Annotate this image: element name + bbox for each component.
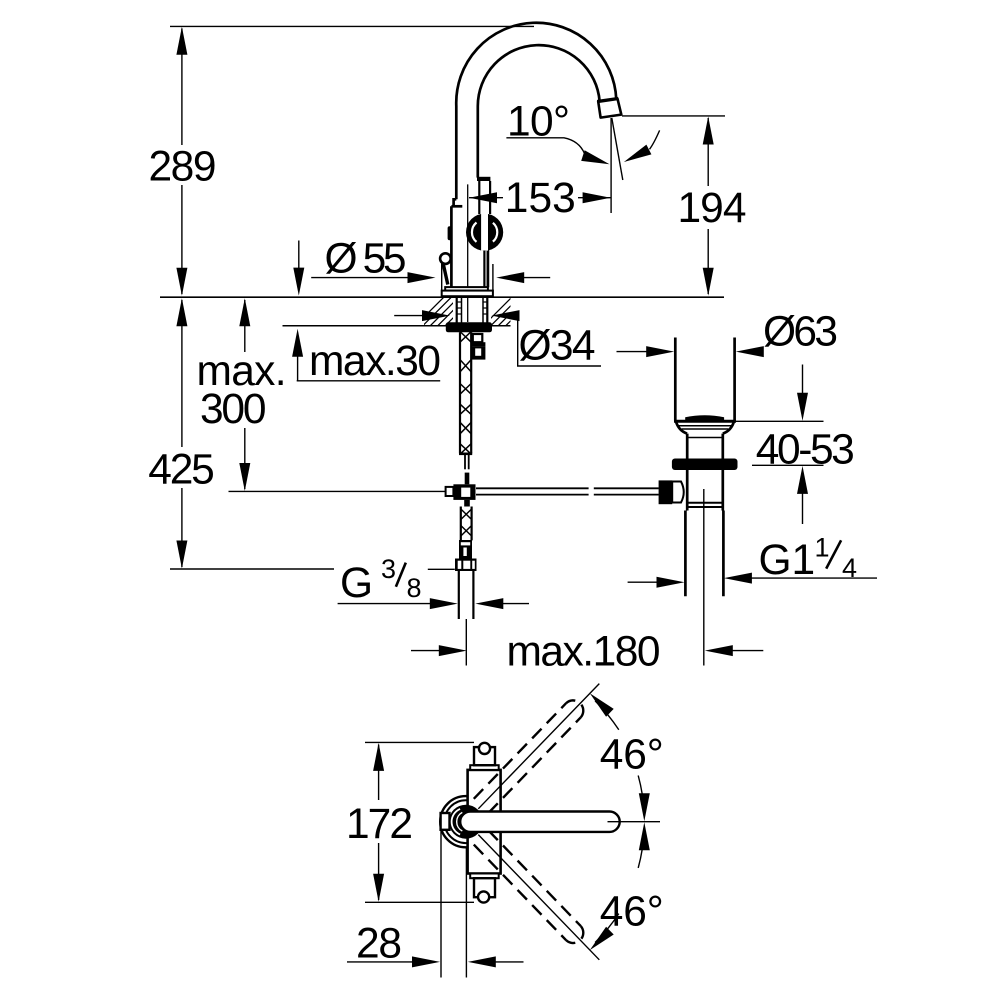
dashed swivel spout lower 46 deg (474, 830, 583, 943)
dimension 172 extension lines (365, 741, 474, 743)
dimension 28 arrows (347, 956, 524, 967)
extension line right of base (492, 264, 494, 293)
drain top cylinder diameter 63 (675, 338, 734, 421)
svg-text:max.30: max.30 (309, 338, 441, 385)
mounting nut (446, 322, 492, 332)
dimension max.180 left arrow (411, 645, 467, 656)
supply pipe centerline extension (465, 619, 467, 666)
spout axis vertical extension line (610, 118, 612, 213)
supply pipe G 3/8 (459, 571, 474, 619)
faucet spout outer arc and left tube edge (456, 23, 616, 200)
right arc of 10 degree swing (650, 130, 660, 149)
drain pivot block (659, 480, 673, 504)
extension line from center down (465, 848, 467, 978)
svg-text:300: 300 (200, 386, 267, 433)
pop-up horizontal rod to drain (476, 488, 659, 494)
dimension max.30 bottom arrow (292, 329, 303, 381)
dimension 194 extension line (622, 115, 725, 117)
svg-text:G: G (340, 560, 373, 607)
pop-up rod horizontal left single line (229, 490, 446, 492)
counter hatch left block (415, 297, 474, 326)
drain body upper (687, 434, 723, 459)
leader line of diameter 34 (514, 316, 601, 366)
svg-text:194: 194 (678, 185, 747, 232)
svg-text:Ø34: Ø34 (519, 323, 596, 370)
extension line left of base (441, 263, 443, 293)
spout aerator nozzle (597, 99, 621, 118)
svg-text:46°: 46° (600, 888, 664, 935)
top view body bar (468, 770, 501, 874)
dimension diameter 34 arrows (394, 310, 519, 321)
arrowhead of right arc (624, 145, 652, 162)
lever bar through knob (481, 212, 488, 250)
dimension diameter 63 arrows (617, 346, 764, 357)
svg-text:G1: G1 (759, 537, 816, 584)
lever channel sides (478, 181, 480, 214)
handle knob black disc (466, 214, 503, 251)
pop-up rod joint collar (446, 487, 454, 496)
top view shoulder band bottom (470, 874, 499, 879)
dimension diameter 55 line right (496, 272, 550, 283)
extension line bottom of 425 (170, 568, 334, 570)
G 3/8 connection nut (455, 559, 477, 572)
handle knob inner white arcs (472, 223, 477, 242)
svg-text:Ø63: Ø63 (763, 309, 838, 356)
base flange step 2 (442, 291, 493, 297)
braided supply hose lower (461, 507, 472, 541)
top view second circle (444, 800, 487, 843)
faucet body centerline (467, 184, 469, 322)
svg-text:425: 425 (148, 447, 215, 494)
top view black ring (449, 805, 483, 839)
dimension max.180 right arrow (705, 645, 764, 656)
thin pull rod below hose (465, 455, 469, 469)
body right edge (487, 249, 490, 287)
drain flange bottom line (674, 420, 736, 423)
dimension diameter 55 line left (311, 272, 435, 283)
svg-text:153: 153 (505, 175, 576, 222)
hose side fitting nipple (472, 334, 486, 360)
drain centerline (703, 489, 705, 666)
dimension G 3/8 arrows (338, 598, 529, 609)
pull rod slanted (443, 264, 448, 285)
drain body lower (687, 470, 723, 511)
drain waist curves (676, 421, 734, 433)
top view knob rect bottom (474, 878, 495, 897)
top view spout bar (460, 812, 620, 832)
top view knob circle bottom (478, 891, 489, 902)
dimension 40-53 arrows (797, 365, 808, 525)
dimension max. 300 line (239, 298, 250, 491)
arc 46 lower (590, 822, 650, 950)
lever top bar (477, 177, 490, 181)
svg-text:Ø 55: Ø 55 (325, 235, 407, 282)
counter hatch right block (483, 297, 535, 326)
arrowhead of 10 degree leader (581, 150, 609, 164)
drain pivot nut (672, 482, 684, 503)
leader of G 3/8 touching nut (428, 568, 455, 570)
joint stub bottom (464, 500, 470, 507)
dimension 289 line (176, 27, 187, 296)
body left edge with steps (454, 199, 457, 206)
dimension 153 line (469, 192, 611, 203)
drain locknut (672, 459, 738, 471)
angle leg upper (478, 684, 599, 809)
top view white arcs in ring (452, 809, 460, 835)
svg-text:172: 172 (346, 801, 413, 848)
top view outer circle (440, 796, 491, 847)
dimension 194 line (703, 117, 714, 296)
hose end fitting (459, 540, 472, 559)
dimension 425 line (176, 298, 187, 568)
dimension G1 1/4 right arrow with underline (724, 573, 877, 584)
dimension 172 line (373, 743, 384, 902)
lever rod below knob (483, 251, 485, 288)
body left nub (448, 226, 452, 240)
svg-text:40-53: 40-53 (756, 427, 855, 474)
svg-text:46°: 46° (600, 731, 664, 778)
top view knob rect top (474, 747, 495, 765)
label G 3/8 (340, 554, 422, 607)
dimension 40-53 extension lines (736, 420, 824, 422)
spout axis tilted 10 degree line (612, 118, 623, 180)
pull rod knob (440, 253, 451, 264)
svg-text:1: 1 (815, 533, 830, 563)
svg-text:28: 28 (356, 921, 402, 968)
dashed swivel spout upper 46 deg (474, 700, 583, 813)
threaded shank below deck (457, 297, 488, 323)
svg-text:max.180: max.180 (507, 628, 661, 675)
svg-text:3: 3 (381, 554, 396, 584)
dimension max.30 top arrow (293, 241, 304, 296)
dimension 289 extension line top (170, 25, 534, 27)
extension line from tab edge down (440, 831, 442, 978)
base flange step 1 (445, 287, 488, 291)
label G1 1/4 (759, 533, 858, 585)
dimension G1 1/4 left arrow (628, 577, 685, 588)
braided supply hose upper (459, 332, 472, 455)
arc 46 upper (590, 693, 650, 821)
drain plug cap (685, 415, 724, 421)
spout bar centerline (608, 821, 661, 823)
pop-up rod joint block (453, 484, 475, 500)
top view shoulder band top (470, 765, 499, 770)
pop-up rod joint stub top (465, 473, 470, 485)
faucet spout inner arc (478, 45, 600, 177)
counter bottom line (283, 325, 453, 327)
top view knob circle top (479, 743, 490, 754)
svg-text:289: 289 (149, 143, 217, 190)
leader from 10 degree label (506, 138, 584, 154)
angle leg lower (478, 835, 599, 960)
deck counter top line (160, 296, 724, 298)
top view left tab (441, 813, 450, 830)
svg-text:8: 8 (407, 573, 422, 603)
drain tailpipe (685, 511, 723, 597)
